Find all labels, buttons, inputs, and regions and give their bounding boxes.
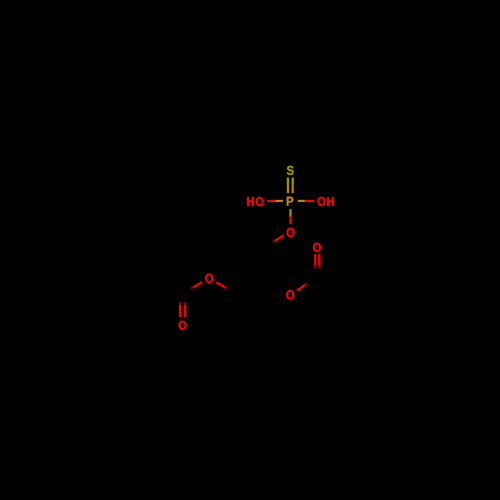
double bond C=O left carbonyl [180,302,185,317]
wire O-CH2 (half bond from phosphate oxygen) [273,235,284,242]
hydroxyl HO (left): H [247,197,254,206]
hydroxyl HO (left): O [256,197,264,206]
wire HO-P [267,200,283,202]
wire O-CH2 left (half bond) [216,282,227,288]
double bond S=P [288,178,293,193]
hydroxyl OH (right): H [327,197,334,206]
atom O (left ester oxygen) [205,274,213,283]
wire O-C(=O) left (half bond) [191,282,202,288]
atom P (phosphorus) [287,197,293,206]
wire O-C(=O) right (half bond) [297,283,307,290]
wire P-OH [298,200,315,202]
atom S (thiophosphoryl sulfur) [287,166,294,175]
wire P-O (phosphate ester bond) [289,209,291,224]
double bond C=O right carbonyl [315,254,319,269]
atom O (right carbonyl oxygen) [313,243,321,252]
atom O (phosphate ester oxygen) [287,228,295,237]
atom O (left carbonyl oxygen) [179,321,187,330]
atom O (right ester oxygen) [286,290,294,299]
hydroxyl OH (right): O [317,197,325,206]
